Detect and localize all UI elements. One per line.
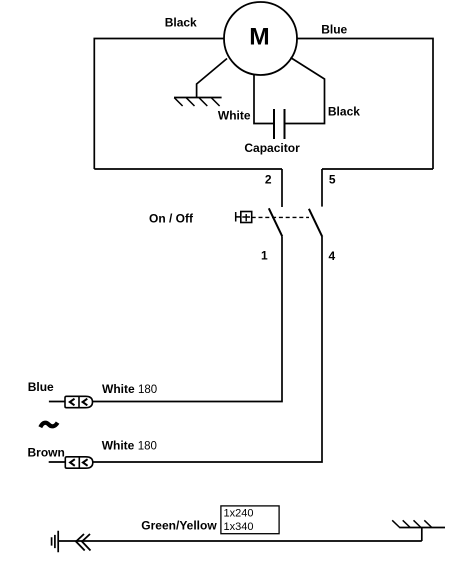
ground (motor chassis) bar bbox=[174, 97, 222, 99]
svg-text:Blue: Blue bbox=[321, 23, 347, 37]
switch S1 actuator cross bbox=[242, 214, 250, 221]
ground (motor chassis) hatches bbox=[174, 98, 219, 106]
capacitor C1 plates bbox=[274, 109, 285, 139]
wire motor right-bottom to capacitor right plate (Black) bbox=[286, 58, 325, 124]
AC tilde symbol bbox=[40, 423, 57, 428]
size box 1x240/1x340 bbox=[221, 506, 279, 534]
wire motor to protective ground (diagonal + vertical) bbox=[197, 59, 227, 98]
svg-text:White: White bbox=[218, 109, 251, 123]
blue lead wire stub bbox=[49, 401, 65, 403]
wire bottom-right segment of loop to terminal 5 bbox=[322, 168, 433, 170]
svg-text:5: 5 bbox=[329, 172, 336, 186]
switch S1 mechanical linkage dashed line bbox=[252, 216, 309, 218]
svg-text:4: 4 bbox=[328, 249, 335, 263]
svg-text:2: 2 bbox=[265, 172, 272, 186]
wire motor bottom to capacitor left plate (White) bbox=[254, 75, 274, 124]
connector X1 cap bbox=[79, 396, 93, 407]
switch S1 blade pole 2-1 bbox=[269, 208, 282, 236]
motor U1 circle bbox=[224, 2, 297, 75]
svg-text:Black: Black bbox=[165, 15, 197, 29]
wire top-right (Blue) from motor to right rail bbox=[297, 39, 433, 170]
wire bottom-left segment of loop to terminal 2 bbox=[94, 168, 282, 170]
connector X2 chevrons bbox=[70, 459, 88, 466]
brown lead wire stub bbox=[49, 461, 66, 463]
svg-text:Brown: Brown bbox=[28, 446, 65, 460]
svg-text:1x240: 1x240 bbox=[224, 508, 254, 520]
earth symbol bars (left end) bbox=[52, 531, 59, 553]
connector X2 body bbox=[65, 457, 79, 468]
svg-text:1: 1 bbox=[261, 249, 268, 263]
connector X1 chevrons bbox=[70, 399, 88, 406]
green/yellow protective wire bbox=[58, 540, 422, 542]
switch S1 terminal 2 stub bbox=[281, 169, 283, 207]
svg-text:M: M bbox=[249, 24, 269, 51]
wire up to right chassis ground bbox=[421, 528, 423, 542]
chassis ground bar (right) bbox=[399, 527, 445, 529]
svg-text:White 180: White 180 bbox=[102, 439, 157, 453]
connector X2 cap bbox=[79, 457, 93, 468]
svg-text:1x340: 1x340 bbox=[224, 521, 254, 533]
svg-text:Blue: Blue bbox=[28, 380, 54, 394]
svg-text:White 180: White 180 bbox=[102, 382, 157, 396]
svg-text:Black: Black bbox=[328, 105, 360, 119]
switch S1 actuator tick bbox=[236, 212, 241, 222]
switch S1 terminal 4 stub + wire down-left to brown lead connector bbox=[93, 237, 322, 462]
switch S1 terminal 5 stub bbox=[321, 169, 323, 207]
svg-text:Capacitor: Capacitor bbox=[244, 141, 300, 155]
chassis chevrons on green/yellow wire bbox=[76, 534, 91, 551]
switch S1 terminal 1 stub + wire down-left to blue lead connector bbox=[93, 236, 283, 401]
switch S1 actuator box bbox=[241, 212, 252, 223]
chassis ground hatches (right) bbox=[392, 520, 432, 527]
svg-text:Green/Yellow: Green/Yellow bbox=[141, 519, 217, 533]
svg-text:On / Off: On / Off bbox=[149, 211, 194, 225]
wire top-left (Black) from left rail to motor bbox=[94, 39, 224, 170]
connector X1 body bbox=[65, 396, 79, 407]
switch S1 blade pole 5-4 bbox=[309, 209, 322, 237]
